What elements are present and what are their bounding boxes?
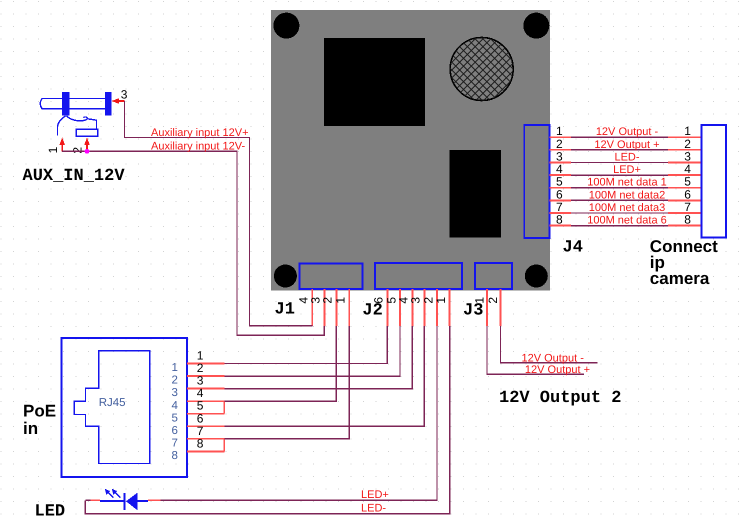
- svg-text:LED-: LED-: [361, 503, 386, 515]
- wire J3 pin1 12V Output +: [487, 326, 584, 374]
- svg-text:LED-: LED-: [614, 152, 639, 164]
- PoE outer pin numbers 1-8 (black): [197, 349, 204, 451]
- AUX pin 2 arrow: [84, 138, 90, 152]
- J1 pin 1 stub: [348, 289, 350, 326]
- svg-text:Auxiliary input 12V-: Auxiliary input 12V-: [151, 140, 245, 152]
- wire J4 pin8 to camera pin8: [571, 225, 668, 227]
- AUX switch lever: [58, 116, 66, 136]
- svg-text:LED+: LED+: [613, 164, 641, 176]
- svg-text:J2: J2: [362, 302, 382, 321]
- LED left pin stub: [91, 499, 101, 501]
- AUX switch contact box: [76, 129, 97, 136]
- wire LED+ (LED to J2 pin2): [85, 326, 437, 500]
- mounting hole top-right: [523, 13, 549, 39]
- svg-text:6: 6: [172, 425, 178, 437]
- crosshatched lens circle: [450, 38, 513, 101]
- wire J4 pin2 to camera pin2: [571, 149, 668, 151]
- RJ45 inner pin numbers 1-8 (blue): [172, 362, 179, 462]
- svg-text:7: 7: [172, 437, 178, 449]
- J2 pin 6 stub: [386, 289, 388, 326]
- wire J4 pin6 to camera pin6: [571, 199, 668, 201]
- mounting hole top-left: [273, 13, 299, 39]
- AUX switch contact curve: [67, 116, 97, 130]
- wire J3 pin2 12V Output -: [501, 326, 598, 363]
- AUX barrel jack right plate: [105, 92, 112, 116]
- svg-text:100M net data 1: 100M net data 1: [587, 177, 667, 189]
- wire J4 pin5 to camera pin5: [571, 187, 668, 189]
- svg-text:camera: camera: [650, 269, 710, 288]
- PCB board: [271, 10, 550, 291]
- RJ45 jack outline: [74, 351, 150, 464]
- svg-text:1: 1: [172, 362, 178, 374]
- J3 pin 2 stub: [500, 289, 502, 326]
- svg-text:8: 8: [684, 213, 691, 227]
- J4 pin stubs (left red segments): [550, 137, 572, 225]
- J2 pin 2 stub: [436, 289, 438, 326]
- camera connector pin numbers 1-8: [684, 124, 691, 226]
- junction dot pin2: [85, 149, 90, 154]
- svg-text:Auxiliary input 12V+: Auxiliary input 12V+: [151, 127, 249, 139]
- AUX barrel outline: [40, 99, 105, 109]
- camera connector body: [702, 125, 727, 238]
- wire PoE pins7+8 to J1 pin1: [224, 326, 349, 439]
- svg-text:12V Output -: 12V Output -: [522, 352, 585, 364]
- wire J4 pin3 to camera pin3: [571, 162, 668, 164]
- wire Auxiliary input 12V+ (pin3 to J1 pin4): [125, 101, 313, 326]
- svg-text:2: 2: [172, 375, 178, 387]
- LED diode symbol: [100, 493, 148, 511]
- wire PoE pin2 to J2 pin5: [224, 326, 400, 376]
- J4 pin numbers 1-8: [556, 124, 563, 226]
- J2 pin 4 stub: [411, 289, 413, 326]
- J1 pin 2 stub: [335, 289, 337, 326]
- svg-text:J4: J4: [563, 239, 583, 258]
- svg-text:1: 1: [46, 146, 60, 153]
- svg-text:in: in: [23, 419, 38, 438]
- svg-text:8: 8: [172, 450, 178, 462]
- wire J4 pin4 to camera pin4: [571, 174, 668, 176]
- connector J4: [524, 125, 549, 238]
- wire PoE pins4+5 to J1 pin2: [224, 326, 336, 401]
- mounting hole bottom-right: [525, 265, 548, 288]
- J2 pin 3 stub: [423, 289, 425, 326]
- camera connector pin stubs (right red segments): [668, 137, 702, 225]
- connector J3: [475, 263, 512, 289]
- svg-text:AUX_IN_12V: AUX_IN_12V: [23, 167, 126, 186]
- J1 pin 3 stub: [323, 289, 325, 326]
- AUX pin 1 arrow: [59, 138, 65, 152]
- svg-text:LED: LED: [35, 503, 66, 522]
- connector J1: [300, 264, 363, 290]
- svg-text:8: 8: [197, 436, 204, 450]
- svg-text:2: 2: [486, 297, 500, 304]
- PoE pin stubs 1-8: [187, 364, 224, 452]
- svg-text:5: 5: [172, 412, 178, 424]
- LED right pin stub: [148, 499, 160, 501]
- svg-text:J1: J1: [275, 301, 295, 320]
- link pins 7-8: [223, 439, 225, 452]
- J2 pin 1 stub: [449, 289, 451, 326]
- PoE in label: [23, 402, 56, 439]
- svg-text:3: 3: [121, 88, 128, 102]
- svg-text:PoE: PoE: [23, 402, 56, 421]
- svg-text:12V Output -: 12V Output -: [596, 126, 659, 138]
- Connect ip camera label: [650, 237, 718, 288]
- J1 pin 4 stub: [311, 289, 313, 326]
- svg-text:LED+: LED+: [361, 489, 389, 501]
- svg-text:3: 3: [172, 387, 178, 399]
- svg-text:RJ45: RJ45: [99, 397, 126, 409]
- J2 pin 5 stub: [399, 289, 401, 326]
- svg-text:4: 4: [172, 400, 179, 412]
- LED emission arrow 1: [105, 489, 114, 498]
- IC chip block: [324, 38, 425, 126]
- svg-text:8: 8: [556, 213, 563, 227]
- component block (black rectangle): [450, 150, 502, 238]
- wire PoE pin3 to J2 pin4: [224, 326, 412, 389]
- PoE RJ45 connector body: [62, 338, 188, 477]
- AUX pin 3 arrow: [112, 98, 125, 104]
- wire Auxiliary input 12V- (pin1/pin2 to J1 pin3): [62, 151, 324, 335]
- svg-text:12V Output +: 12V Output +: [594, 139, 659, 151]
- connector J2: [375, 263, 462, 289]
- link pins 4-5: [223, 401, 225, 414]
- svg-text:100M net data 6: 100M net data 6: [587, 215, 667, 227]
- mounting hole bottom-left: [274, 265, 297, 288]
- svg-text:2: 2: [71, 147, 85, 154]
- svg-text:2: 2: [321, 297, 335, 304]
- svg-text:12V Output +: 12V Output +: [525, 364, 590, 376]
- AUX barrel jack left plate: [62, 92, 70, 116]
- wire PoE pin1 to J2 pin6: [224, 326, 387, 364]
- LED emission arrow 2: [112, 489, 121, 498]
- svg-text:100M net data3: 100M net data3: [589, 202, 665, 214]
- svg-text:1: 1: [334, 297, 348, 304]
- svg-text:12V Output 2: 12V Output 2: [499, 389, 621, 408]
- wire PoE pin6 to J2 pin3: [224, 326, 424, 426]
- wire LED- (LED return to J2 pin1): [85, 326, 449, 514]
- svg-text:J3: J3: [463, 302, 483, 321]
- svg-text:1: 1: [434, 297, 448, 304]
- wire J4 pin7 to camera pin7: [571, 212, 668, 214]
- svg-text:100M net data2: 100M net data2: [589, 189, 665, 201]
- wire J4 pin1 to camera pin1: [571, 136, 668, 138]
- J3 pin 1 stub: [486, 289, 488, 326]
